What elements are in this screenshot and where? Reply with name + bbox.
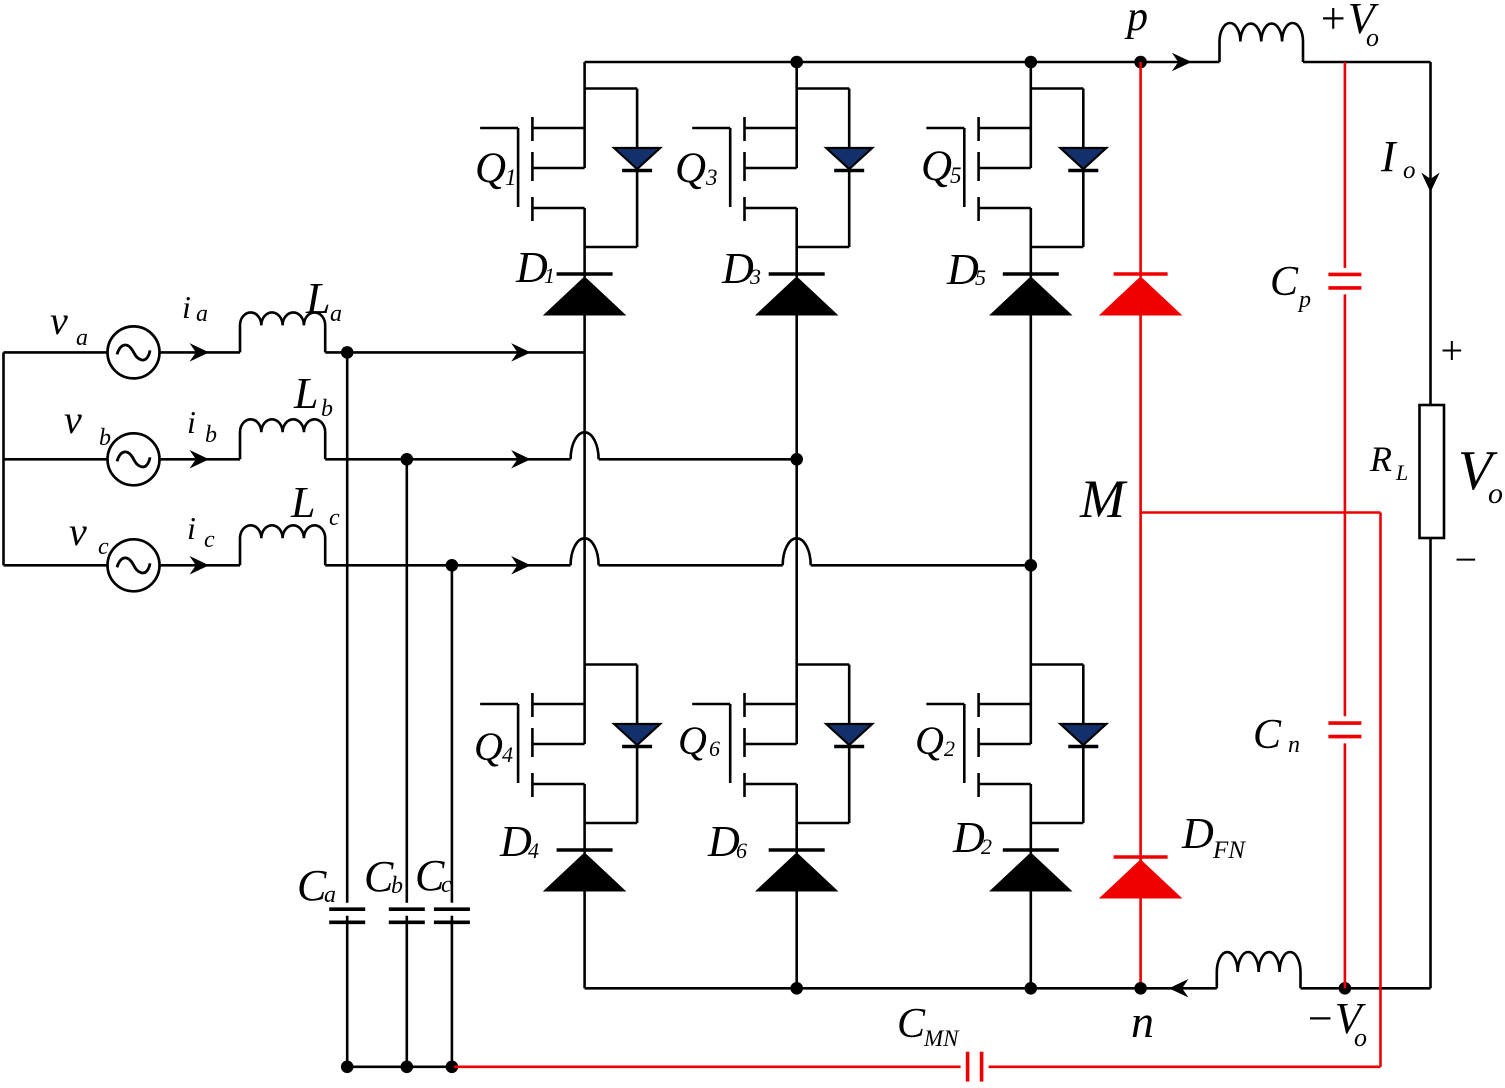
- svg-text:b: b: [205, 422, 217, 448]
- wire Cn to -Vo: [1344, 743, 1347, 988]
- svg-text:p: p: [1124, 0, 1148, 40]
- diode D4: [544, 850, 625, 891]
- hop phase b over col1: [571, 432, 599, 459]
- svg-text:Q: Q: [915, 718, 944, 763]
- capacitor Ca: [329, 909, 365, 922]
- wire inductor to -Vo corner: [1301, 538, 1431, 988]
- label D5: [946, 245, 986, 294]
- wire Q5 source to D5: [1030, 208, 1033, 277]
- node top bus col2: [790, 56, 803, 69]
- svg-text:Q: Q: [675, 145, 706, 192]
- wire Q3 source to D3: [795, 208, 798, 277]
- wire vc to Lc: [160, 564, 241, 567]
- node p: [1134, 56, 1147, 69]
- svg-text:R: R: [1369, 439, 1392, 479]
- svg-text:C: C: [897, 1001, 926, 1047]
- label Q3: [675, 145, 718, 192]
- wire phase b lead: [4, 458, 109, 461]
- inductor La: [240, 312, 325, 352]
- wire DFP anode: [1139, 62, 1142, 277]
- svg-text:L: L: [1395, 460, 1408, 485]
- label +Vo: [1318, 0, 1380, 52]
- node n: [1134, 982, 1147, 995]
- svg-text:2: 2: [981, 834, 992, 859]
- wire D6 to bottom rail: [795, 891, 798, 988]
- svg-text:C: C: [1270, 259, 1299, 305]
- svg-text:n: n: [1131, 996, 1154, 1047]
- wire col1 mid vertical: [583, 352, 586, 638]
- label ic: [187, 510, 215, 553]
- wire phase a lead: [4, 351, 109, 354]
- svg-text:b: b: [391, 873, 403, 899]
- node phase c junction: [446, 559, 459, 572]
- svg-text:a: a: [330, 301, 342, 327]
- diode D2: [990, 850, 1071, 891]
- svg-text:c: c: [204, 527, 215, 553]
- wire D5 to phase c node: [1030, 315, 1033, 565]
- label D1: [515, 243, 555, 292]
- svg-text:Q: Q: [921, 143, 952, 190]
- wire Cb branch: [405, 459, 408, 1067]
- svg-text:6: 6: [736, 838, 747, 863]
- capacitor Cc: [434, 909, 470, 922]
- svg-text:6: 6: [709, 736, 720, 761]
- arrow ib: [191, 451, 208, 467]
- label RL: [1369, 439, 1408, 485]
- wire M to DFN: [1139, 513, 1142, 861]
- diode D3: [756, 274, 837, 315]
- svg-text:a: a: [76, 325, 88, 351]
- label Io: [1380, 132, 1416, 184]
- svg-text:c: c: [329, 505, 340, 531]
- inductor output negative: [1217, 952, 1301, 988]
- svg-text:C: C: [364, 852, 394, 901]
- wire bottom rail: [585, 987, 1217, 990]
- node phase b col2 junction: [790, 453, 803, 466]
- source va: [108, 326, 160, 378]
- svg-text:4: 4: [502, 742, 513, 767]
- label La: [305, 274, 342, 327]
- label n: [1131, 996, 1154, 1047]
- svg-text:i: i: [187, 510, 196, 546]
- label minus output: [1452, 537, 1479, 582]
- svg-text:C: C: [297, 861, 327, 910]
- label D4: [499, 817, 539, 866]
- svg-text:v: v: [50, 298, 68, 343]
- label CMN: [897, 1001, 960, 1051]
- inductor Lc: [240, 525, 325, 565]
- svg-text:FN: FN: [1212, 837, 1246, 864]
- svg-text:b: b: [321, 396, 333, 422]
- wire red bottom bus left: [454, 1066, 961, 1069]
- node bottom rail col3: [1025, 982, 1038, 995]
- svg-text:−: −: [1452, 537, 1479, 582]
- svg-text:+: +: [1438, 328, 1465, 373]
- svg-text:4: 4: [528, 838, 539, 863]
- inductor output positive: [1220, 23, 1304, 62]
- inductor Lb: [240, 419, 325, 459]
- svg-text:5: 5: [975, 265, 986, 290]
- diode D6: [756, 850, 837, 891]
- svg-text:MN: MN: [923, 1026, 960, 1051]
- svg-text:1: 1: [544, 263, 555, 288]
- wire Q2 source to D2: [1030, 784, 1033, 853]
- source vb: [108, 433, 160, 485]
- svg-text:a: a: [196, 301, 208, 327]
- node phase b junction: [401, 453, 414, 466]
- label DFN: [1181, 809, 1246, 864]
- arrow p output: [1173, 54, 1190, 70]
- body diode of Q5: [1031, 89, 1107, 248]
- label ia: [182, 289, 208, 327]
- node top bus col3: [1025, 56, 1038, 69]
- arrow ic: [191, 557, 208, 573]
- hop phase c over col2: [783, 538, 811, 565]
- label Cc: [415, 851, 452, 900]
- svg-text:Q: Q: [475, 145, 506, 192]
- label p: [1124, 0, 1148, 40]
- wire col2 mid vertical: [795, 459, 798, 638]
- wire D3 to phase b node: [795, 315, 798, 459]
- transistor Q4: [480, 638, 584, 797]
- wire M horizontal: [1141, 511, 1381, 514]
- resistor RL: [1420, 405, 1445, 538]
- svg-text:c: c: [441, 872, 452, 898]
- wire va to La: [160, 351, 241, 354]
- wire Cp top: [1344, 62, 1347, 268]
- wire top dc bus p-rail: [585, 61, 1220, 64]
- wire Q6 source to D6: [795, 784, 798, 853]
- svg-text:3: 3: [749, 264, 761, 289]
- node Cc bus junction: [446, 1061, 459, 1074]
- svg-text:v: v: [69, 509, 87, 554]
- arrow ia2: [513, 344, 530, 360]
- svg-text:L: L: [293, 369, 318, 418]
- label vb: [64, 397, 111, 451]
- body diode of Q4: [585, 665, 661, 824]
- wire Q1 source to D1: [583, 208, 586, 277]
- svg-text:i: i: [187, 404, 196, 440]
- wire D1 to phase a node: [583, 315, 586, 352]
- wire col3 mid vertical: [1030, 565, 1033, 638]
- arrow ia: [191, 344, 208, 360]
- body diode of Q6: [797, 665, 873, 824]
- node -Vo junction: [1339, 982, 1352, 995]
- wire Lb to bridge col2: [325, 458, 797, 461]
- node phase c col3 junction: [1025, 559, 1038, 572]
- wire phase c lead: [4, 564, 109, 567]
- label plus output: [1438, 328, 1465, 373]
- label M: [1079, 469, 1128, 529]
- node phase a junction: [341, 346, 354, 359]
- label Q6: [678, 718, 720, 763]
- capacitor CMN: [968, 1052, 982, 1082]
- svg-text:L: L: [305, 274, 330, 323]
- wire La to bridge col1: [325, 351, 584, 354]
- svg-text:o: o: [1403, 157, 1416, 184]
- svg-text:C: C: [1253, 712, 1282, 758]
- node Ca bus junction: [341, 1061, 354, 1074]
- svg-text:Q: Q: [678, 718, 707, 763]
- svg-text:i: i: [182, 289, 191, 325]
- capacitor Cb: [389, 909, 425, 922]
- svg-text:b: b: [99, 425, 111, 451]
- svg-text:M: M: [1079, 469, 1128, 529]
- label Lc: [290, 478, 340, 531]
- body diode of Q2: [1031, 665, 1107, 824]
- transistor Q6: [692, 638, 797, 797]
- node neutral left rail: [2, 352, 5, 565]
- label Cn: [1253, 712, 1300, 758]
- svg-text:p: p: [1297, 287, 1311, 313]
- node Cb bus junction: [401, 1061, 414, 1074]
- label Q1: [475, 145, 517, 192]
- svg-text:L: L: [290, 478, 315, 527]
- diode DFN: [1100, 857, 1181, 898]
- label va: [50, 298, 88, 351]
- svg-text:o: o: [1366, 23, 1379, 52]
- capacitor Cp: [1328, 274, 1361, 288]
- svg-text:a: a: [324, 882, 336, 908]
- node bottom rail col2: [790, 982, 803, 995]
- capacitor Cn: [1328, 723, 1361, 737]
- wire Q4 source to D4: [583, 784, 586, 853]
- label D3: [721, 244, 761, 293]
- wire D4 to bottom rail: [583, 891, 586, 988]
- svg-text:I: I: [1380, 132, 1398, 181]
- diode D5: [990, 274, 1071, 315]
- label ib: [187, 404, 217, 448]
- svg-text:n: n: [1288, 732, 1300, 758]
- svg-text:5: 5: [950, 163, 962, 188]
- svg-text:1: 1: [505, 165, 517, 190]
- wire Lc to bridge col3: [325, 564, 1031, 567]
- svg-text:v: v: [64, 397, 82, 442]
- wire Ca branch: [346, 352, 349, 1066]
- wire DFN to n: [1139, 895, 1142, 988]
- svg-text:3: 3: [705, 165, 718, 190]
- diode DFP: [1100, 274, 1181, 315]
- label Cp: [1270, 259, 1311, 313]
- svg-text:o: o: [1354, 1023, 1367, 1052]
- label Vo: [1458, 440, 1503, 510]
- wire vb to Lb: [160, 458, 241, 461]
- wire M vertical: [1379, 513, 1382, 1067]
- arrow into n: [1170, 980, 1187, 996]
- label Cb: [364, 852, 403, 901]
- wire D2 to bottom rail: [1030, 891, 1033, 988]
- diode D1: [544, 274, 625, 315]
- transistor Q3: [692, 62, 797, 221]
- hop phase c over col1: [571, 538, 599, 565]
- svg-text:Q: Q: [474, 724, 503, 769]
- label Q4: [474, 724, 513, 769]
- transistor Q2: [926, 638, 1031, 797]
- label Q2: [915, 718, 955, 763]
- body diode of Q1: [585, 89, 661, 248]
- wire Cc branch: [451, 565, 454, 1067]
- wire capacitor common bus: [347, 1066, 456, 1069]
- label Ca: [297, 861, 336, 910]
- label -Vo: [1305, 994, 1367, 1052]
- svg-text:D: D: [1181, 809, 1214, 858]
- transistor Q5: [926, 62, 1031, 221]
- label vc: [69, 509, 109, 560]
- arrow Io: [1423, 174, 1439, 191]
- label D6: [707, 817, 747, 866]
- svg-text:o: o: [1488, 477, 1503, 510]
- source vc: [108, 539, 160, 591]
- wire top bus right segment to output corner: [1303, 62, 1431, 405]
- label D2: [952, 813, 992, 862]
- label Q5: [921, 143, 962, 190]
- svg-text:c: c: [98, 534, 109, 560]
- label Lb: [293, 369, 333, 422]
- arrow ic2: [513, 557, 530, 573]
- arrow ib2: [513, 451, 530, 467]
- wire DFP to M junction: [1139, 315, 1142, 513]
- svg-text:2: 2: [944, 736, 955, 761]
- transistor Q1: [480, 62, 584, 221]
- body diode of Q3: [797, 89, 873, 248]
- wire red bottom bus right: [989, 1066, 1381, 1069]
- wire Cp to Cn: [1344, 294, 1347, 716]
